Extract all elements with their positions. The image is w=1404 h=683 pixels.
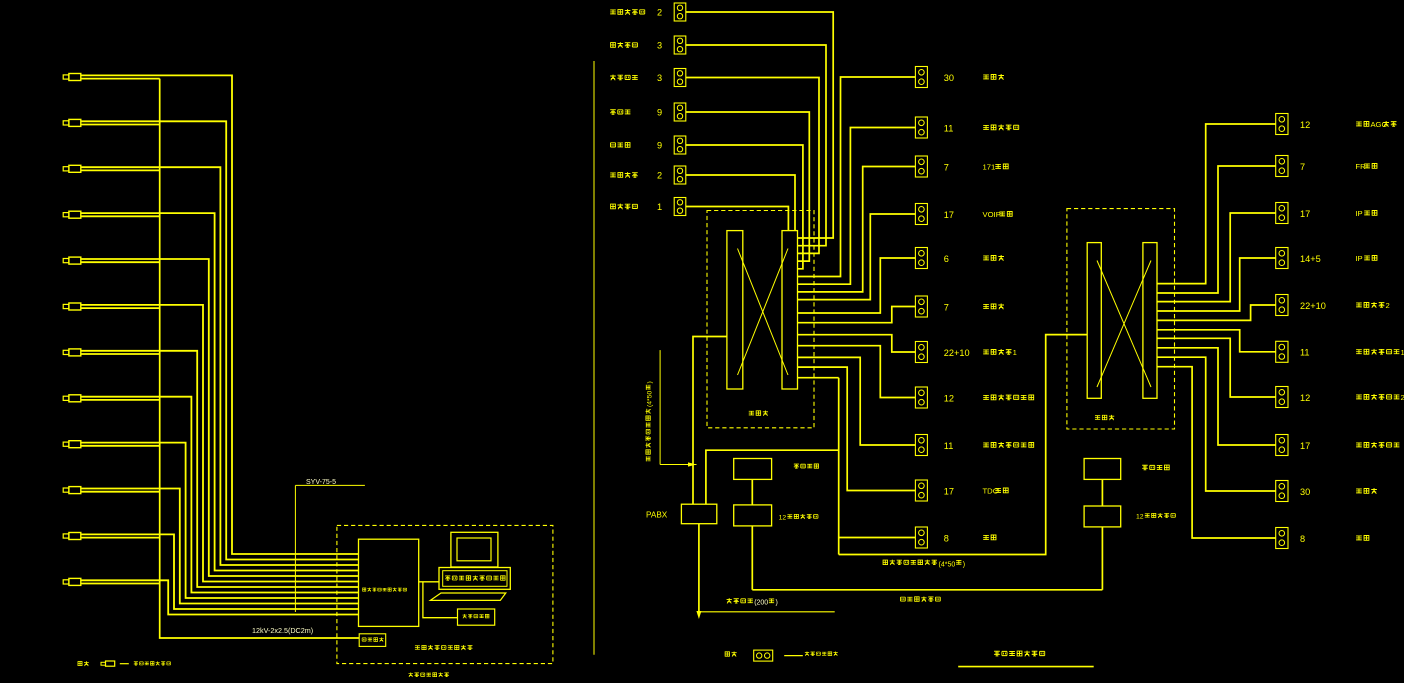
terminal block TB-R10	[1276, 528, 1288, 549]
wire host to recorder branch	[423, 582, 458, 618]
terminal block TB-R4	[1276, 248, 1288, 269]
terminal block TB-R3	[1276, 203, 1288, 224]
network equipment box NE1	[734, 459, 772, 480]
room label 会议室	[610, 110, 616, 115]
room label 计费室	[983, 304, 989, 308]
terminal block TB-L2	[674, 36, 686, 54]
svg-text:6: 6	[944, 254, 949, 264]
wire TB-M11 to trunk riser	[839, 537, 916, 539]
svg-text:12kV-2x2.5(DC2m): 12kV-2x2.5(DC2m)	[252, 626, 313, 635]
svg-text:22+10: 22+10	[1300, 301, 1326, 311]
svg-text:1: 1	[657, 202, 662, 212]
MDF1 entry for trunk riser	[798, 377, 839, 379]
legend-2 label 图例	[725, 652, 729, 656]
terminal block TB-R6	[1276, 341, 1288, 362]
room label 值班室	[1356, 489, 1362, 493]
wire TB-R4 to MDF2	[1157, 258, 1276, 311]
svg-text:(4*50: (4*50	[939, 561, 956, 568]
title 综合布线系统图	[994, 651, 1000, 656]
wire TB-M4 to MDF1	[798, 214, 916, 300]
backup power box 备用电源	[359, 634, 386, 647]
wire NE1 to fiber panel FP1	[751, 479, 753, 505]
wire CAM1 power to bus (double-line bottom)	[81, 78, 160, 80]
terminal block TB-R8	[1276, 435, 1288, 456]
power bus 12kV vertical+bottom run to backup supply	[160, 79, 360, 638]
svg-text:12: 12	[779, 514, 787, 521]
wire TB-R6 to MDF2	[1157, 330, 1276, 352]
vertical label 拉至各大对数电缆(4*50对)	[646, 381, 654, 461]
terminal block TB-L6	[674, 166, 686, 184]
wire host to workstation	[419, 581, 439, 583]
svg-text:12: 12	[944, 393, 954, 403]
camera connector CAM9	[63, 441, 81, 448]
svg-text:7: 7	[944, 162, 949, 172]
wire TB-R7 to MDF2	[1157, 338, 1276, 397]
camera connector CAM7	[63, 349, 81, 356]
legend-1 camera symbol	[101, 661, 115, 666]
sheet divider line	[593, 61, 595, 655]
camera connector CAM1	[63, 74, 81, 81]
room label 消防保安	[611, 204, 616, 209]
wire TB-M2 to MDF1	[798, 128, 916, 285]
svg-text:17: 17	[944, 210, 954, 220]
label 网络设备 NE2	[1142, 465, 1148, 470]
MDF1 dashed enclosure	[707, 211, 814, 428]
svg-text:11: 11	[1300, 348, 1310, 358]
terminal block TB-R2	[1276, 156, 1288, 177]
svg-text:PABX: PABX	[646, 511, 668, 520]
wire CAM12 video SYV to host (double-line top)	[81, 580, 359, 614]
terminal block TB-M3	[915, 156, 927, 177]
svg-text:17: 17	[1300, 441, 1310, 451]
camera connector CAM10	[63, 487, 81, 494]
svg-text:17: 17	[944, 486, 954, 496]
svg-text:12: 12	[1136, 514, 1144, 521]
svg-text:30: 30	[944, 73, 954, 83]
MDF1 cross diagonal 1	[738, 249, 789, 376]
PABX box	[681, 504, 716, 524]
terminal block TB-L7	[674, 198, 686, 216]
terminal block TB-R7	[1276, 387, 1288, 408]
room label 长城网机房	[983, 125, 989, 129]
terminal block TB-R5	[1276, 295, 1288, 316]
terminal block TB-M7	[915, 342, 927, 363]
svg-text:): )	[647, 381, 654, 383]
wire TB-L7 to MDF1	[686, 207, 789, 231]
MDF2 dashed enclosure	[1067, 209, 1175, 429]
camera connector CAM4	[63, 211, 81, 218]
room label 仪表室	[983, 256, 989, 260]
room label 长途交换机房	[1356, 443, 1362, 447]
wire CAM4 video SYV to host (double-line top)	[81, 213, 359, 570]
MDF2 cross diagonal 2	[1097, 261, 1151, 388]
dashed room box: security control room	[337, 525, 553, 663]
wire CAM5 video SYV to host (double-line top)	[81, 259, 359, 576]
wire TB-L3 to MDF1	[686, 78, 819, 254]
svg-text:171: 171	[983, 163, 996, 172]
terminal block TB-M9	[915, 435, 927, 456]
svg-text:9: 9	[657, 108, 662, 118]
wire CAM2 power to bus (double-line bottom)	[81, 124, 160, 126]
label MDF1 配线架	[749, 411, 754, 415]
monitor screen inner	[457, 538, 491, 561]
terminal block TB-R1	[1276, 114, 1288, 135]
svg-text:): )	[776, 600, 778, 607]
svg-text:SYV-75-5: SYV-75-5	[306, 479, 336, 486]
svg-text:2: 2	[657, 8, 662, 18]
wire TB-M8 to MDF1	[798, 346, 916, 398]
wire PABX down to telephone cable	[698, 524, 700, 612]
label 备用电源	[362, 638, 366, 641]
network equipment box NE2	[1084, 459, 1121, 480]
label 网络设备 NE1	[794, 464, 799, 468]
wire CAM10 video SYV to host (double-line top)	[81, 489, 359, 604]
wire CAM9 power to bus (double-line bottom)	[81, 445, 160, 447]
wire CAM4 power to bus (double-line bottom)	[81, 215, 160, 217]
wire CAM6 video SYV to host (double-line top)	[81, 305, 359, 582]
wire CAM1 video SYV to host (double-line top)	[81, 75, 359, 554]
terminal block TB-M2	[915, 117, 927, 138]
wire CAM12 power to bus (double-line bottom)	[81, 583, 160, 585]
label 光盘刻录机	[463, 614, 467, 618]
svg-text:IP: IP	[1355, 209, 1362, 218]
camera connector CAM12	[63, 578, 81, 585]
wire TB-M1 to MDF1	[798, 77, 916, 277]
room label 办公	[983, 535, 989, 539]
leader arrow tick	[688, 462, 697, 466]
wire CAM11 video SYV to host (double-line top)	[81, 534, 359, 609]
terminal block TB-M6	[915, 296, 927, 317]
legend-1 label 图例	[78, 662, 82, 666]
arrow telephone cable down	[696, 611, 701, 619]
room label 长途传输机房2	[1356, 395, 1362, 399]
svg-text:2: 2	[657, 171, 662, 181]
terminal block TB-L4	[674, 103, 686, 121]
room label 关口局交换机房	[983, 443, 989, 447]
wire TB-R8 to MDF2	[1157, 348, 1276, 445]
wire bus B up to FP2	[1101, 527, 1103, 590]
terminal block TB-M8	[915, 387, 927, 408]
wire TB-L6 to MDF1	[686, 175, 795, 231]
terminal block TB-L5	[674, 136, 686, 154]
wire TB-L5 to MDF1	[686, 145, 803, 269]
label MDF2 配线架	[1095, 416, 1100, 420]
wire CAM2 video SYV to host (double-line top)	[81, 121, 359, 559]
keyboard	[430, 593, 506, 600]
svg-text:2: 2	[1401, 393, 1404, 402]
svg-text:12: 12	[1300, 393, 1310, 403]
wire CAM11 power to bus (double-line bottom)	[81, 537, 160, 539]
MDF1 right bar	[782, 231, 798, 389]
room label 办公	[1356, 536, 1362, 540]
fiber patch panel box FP1 12口光配线架	[734, 505, 772, 526]
wire CAM7 video SYV to host (double-line top)	[81, 351, 359, 587]
terminal block TB-L1	[674, 3, 686, 21]
wire CAM3 power to bus (double-line bottom)	[81, 169, 160, 171]
terminal block TB-M10	[915, 480, 927, 501]
terminal block TB-M11	[915, 527, 927, 548]
wire NE2 to FP2	[1101, 479, 1103, 506]
wire TB-R2 to MDF2	[1157, 166, 1276, 293]
label 拉至各大对数电缆(4*50对) on bus A	[883, 560, 887, 564]
room label 办公室	[610, 143, 615, 147]
room label 电源机房	[610, 75, 616, 81]
camera connector CAM5	[63, 257, 81, 264]
title underline	[958, 666, 1093, 668]
leader SYV-75-5 underline	[295, 484, 365, 486]
wire TB-R5 to MDF2	[1157, 305, 1276, 320]
terminal block TB-M4	[915, 204, 927, 225]
wire TB-R9 to MDF2	[1157, 357, 1276, 491]
wire CAM7 power to bus (double-line bottom)	[81, 353, 160, 355]
wire CAM8 power to bus (double-line bottom)	[81, 399, 160, 401]
wire TB-L1 to MDF1	[686, 12, 833, 238]
room label 消防保安	[610, 173, 616, 177]
system unit inner panel	[443, 571, 507, 587]
wire PABX to MDF1 left bar	[693, 337, 727, 505]
svg-text:3: 3	[657, 41, 662, 51]
svg-text:IP: IP	[1355, 254, 1362, 263]
terminal block TB-M1	[915, 67, 927, 88]
camera connector CAM2	[63, 119, 81, 126]
svg-text:7: 7	[944, 302, 949, 312]
wire TB-M7 to MDF1	[798, 335, 916, 352]
svg-text:22+10: 22+10	[944, 348, 970, 358]
wire TB-L4 to MDF1	[686, 112, 810, 261]
svg-text:8: 8	[1300, 534, 1305, 544]
svg-text:1: 1	[1013, 348, 1017, 357]
title 保安监控系统图	[408, 672, 413, 677]
svg-text:7: 7	[1300, 162, 1305, 172]
room label 电源机房	[611, 43, 616, 48]
wire FP1 down to fiber bus B	[751, 526, 753, 590]
leader line 拉至各大对数电缆 near PABX	[659, 350, 661, 464]
svg-text:8: 8	[944, 533, 949, 543]
wire CAM9 video SYV to host (double-line top)	[81, 443, 359, 598]
recorder box 光盘刻录机	[458, 609, 495, 625]
svg-text:3: 3	[657, 73, 662, 83]
workstation system unit	[439, 568, 510, 590]
svg-text:2: 2	[1386, 301, 1390, 310]
wire TB-R10 to MDF2	[1157, 367, 1276, 538]
camera connector CAM8	[63, 395, 81, 402]
wire CAM10 power to bus (double-line bottom)	[81, 491, 160, 493]
camera connector CAM6	[63, 303, 81, 310]
PABX trunk wire to riser	[706, 450, 839, 504]
terminal block TB-L3	[674, 69, 686, 87]
room label 长途传输机房1	[1356, 350, 1362, 354]
wire CAM5 power to bus (double-line bottom)	[81, 261, 160, 263]
MDF2 left bar	[1087, 243, 1101, 399]
bus A multi-pair cable to MDF2	[839, 335, 1087, 555]
svg-text:12: 12	[1300, 120, 1310, 130]
svg-text:1: 1	[1401, 348, 1404, 357]
legend-2 text 双绞线信息插座	[805, 652, 809, 656]
svg-text:11: 11	[944, 123, 954, 133]
legend-2 outlet symbol	[754, 650, 773, 661]
label 六芯多模光纤	[901, 597, 906, 601]
svg-text:17: 17	[1300, 209, 1310, 219]
wire CAM3 video SYV to host (double-line top)	[81, 167, 359, 565]
MDF2 right bar	[1143, 243, 1157, 399]
wire TB-M9 to MDF1	[798, 357, 916, 445]
trunk riser vertical x=838.7	[838, 378, 840, 555]
room label 调度AGC机房	[1356, 122, 1362, 126]
svg-text:11: 11	[944, 441, 954, 451]
legend-2 wire sample	[784, 655, 803, 657]
MDF1 cross diagonal 2	[738, 249, 789, 376]
label host 多媒体监控报警主机	[363, 588, 366, 591]
label room 设在一层消防保安室	[415, 646, 420, 649]
svg-text:14+5: 14+5	[1300, 254, 1321, 264]
room label 接地室	[983, 75, 989, 79]
telephone cable line 200 pair	[699, 611, 835, 613]
wire TB-R3 to MDF2	[1157, 213, 1276, 302]
leader SYV-75-5 vertical through cable bundle	[294, 485, 296, 612]
label 电话电缆(200对)	[727, 598, 732, 603]
svg-text:9: 9	[657, 141, 662, 151]
CCTV host box U1 多媒体监控报警主机	[359, 539, 419, 626]
svg-text:FR: FR	[1355, 162, 1366, 171]
camera connector CAM3	[63, 165, 81, 172]
wire TB-M10 to MDF1	[798, 367, 916, 490]
room label 关口局传输机房	[983, 395, 989, 399]
wire CAM6 power to bus (double-line bottom)	[81, 307, 160, 309]
MDF1 left bar	[727, 231, 743, 389]
wire TB-L2 to MDF1	[686, 45, 826, 246]
wire TB-M6 to MDF1	[798, 307, 916, 323]
bus B six-core fiber to MDF2 panel	[752, 589, 1102, 591]
room label 高低压配电	[610, 10, 616, 14]
svg-text:(200: (200	[754, 600, 768, 607]
fiber patch panel box FP2	[1084, 506, 1121, 527]
svg-text:(4*50: (4*50	[647, 391, 654, 407]
legend-1 wire sample	[120, 663, 129, 665]
terminal block TB-R9	[1276, 481, 1288, 502]
wire CAM8 video SYV to host (double-line top)	[81, 397, 359, 593]
wire TB-M3 to MDF1	[798, 167, 916, 292]
svg-text:30: 30	[1300, 487, 1310, 497]
svg-text:): )	[963, 561, 965, 568]
wire TB-R1 to MDF2	[1157, 124, 1276, 284]
room label 网管中心2	[1356, 303, 1362, 307]
terminal block TB-M5	[915, 248, 927, 269]
camera connector CAM11	[63, 533, 81, 540]
svg-text:VOIP: VOIP	[983, 210, 1001, 219]
legend-1 text 定焦彩色摄像机	[134, 662, 138, 665]
wire TB-M5 to MDF1	[798, 258, 916, 313]
leader horizontal tick	[660, 464, 696, 466]
label workstation 多媒体监控报警主机	[445, 576, 450, 580]
room label 网管中心1	[983, 350, 989, 354]
MDF2 cross diagonal 1	[1097, 261, 1151, 388]
svg-text:TDC: TDC	[983, 487, 999, 496]
monitor of workstation	[451, 532, 498, 567]
